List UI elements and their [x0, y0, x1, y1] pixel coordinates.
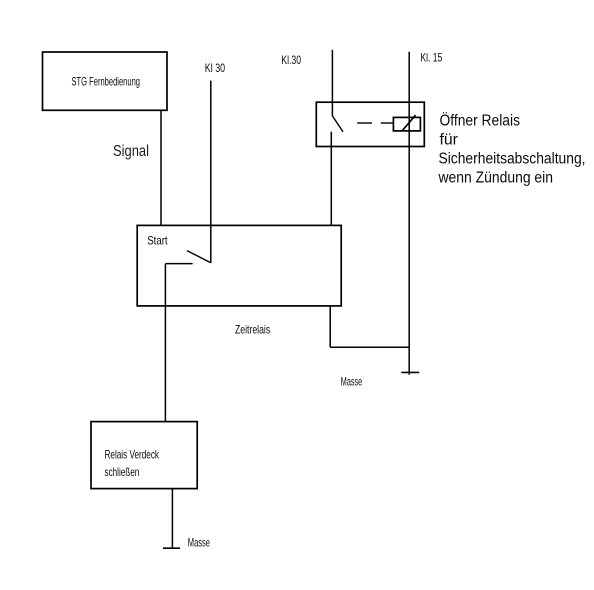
svg-text:Sicherheitsabschaltung,: Sicherheitsabschaltung,	[439, 151, 586, 168]
relay K1 box (Öffner Relais)	[316, 102, 424, 146]
svg-text:Zeitrelais: Zeitrelais	[235, 322, 270, 336]
svg-text:Masse: Masse	[188, 535, 210, 549]
wire Zeitrelais output (down to Relais Verdeck)	[164, 264, 166, 422]
wire Kl.30 upper (into relay box)	[331, 50, 333, 117]
block Relais Verdeck schließen	[91, 422, 197, 489]
annotation Öffner Relais text	[438, 112, 586, 187]
relay K1 dashed actuator link	[357, 122, 393, 124]
wire Kl 30 (down into Zeitrelais switch)	[210, 81, 212, 263]
relay K1 switch contact (open)	[333, 116, 343, 131]
svg-text:Kl. 15: Kl. 15	[420, 51, 442, 65]
svg-text:Masse: Masse	[341, 375, 363, 389]
Zeitrelais switch contact (diagonal arm)	[187, 251, 211, 263]
wire contact stub (horizontal)	[165, 263, 192, 265]
svg-text:STG Fernbedienung: STG Fernbedienung	[72, 75, 141, 89]
wire Signal (STG output down to Zeitrelais)	[160, 110, 162, 225]
wire Zeitrelais right output down	[329, 306, 331, 347]
svg-text:schließen: schließen	[105, 465, 140, 479]
block Zeitrelais box	[137, 225, 341, 306]
wire horizontal to Kl.15 net	[330, 346, 409, 348]
wire Kl.30 lower (relay switch to Zeitrelais box)	[330, 132, 332, 226]
block STG Fernbedienung	[43, 52, 168, 110]
svg-text:Start: Start	[147, 234, 168, 248]
ground bottom (Masse)	[163, 547, 180, 549]
svg-text:Kl.30: Kl.30	[281, 53, 301, 67]
wire Kl. 15 (down through relay coil to ground)	[408, 52, 410, 375]
svg-text:Kl 30: Kl 30	[205, 61, 226, 75]
svg-text:wenn Zündung ein: wenn Zündung ein	[438, 169, 553, 186]
relay K1 coil	[393, 115, 420, 131]
svg-text:Signal: Signal	[113, 143, 149, 160]
wire Relais Verdeck to ground	[171, 489, 173, 549]
ground right (Masse)	[401, 371, 419, 373]
svg-text:Öffner Relais: Öffner Relais	[440, 112, 521, 130]
svg-text:für: für	[440, 132, 458, 149]
svg-text:Relais Verdeck: Relais Verdeck	[105, 448, 160, 462]
